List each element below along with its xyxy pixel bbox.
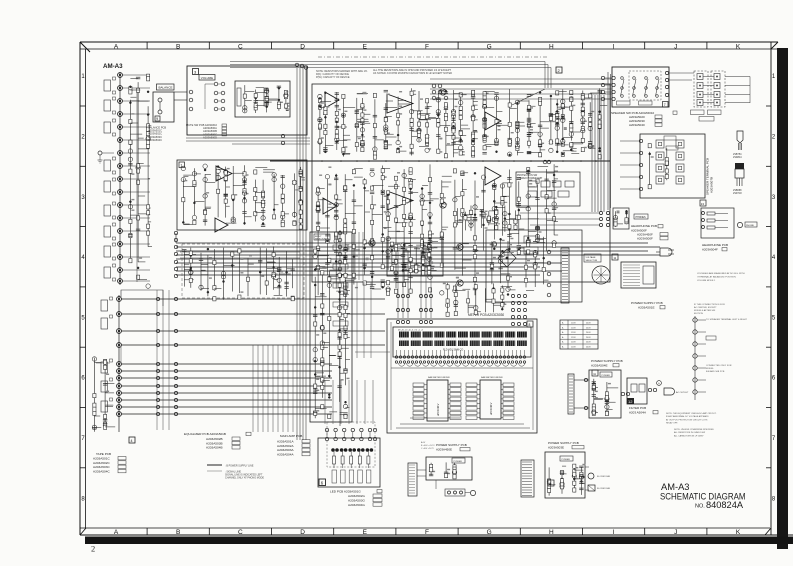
capacitor <box>552 180 556 182</box>
wire <box>322 266 333 268</box>
junction <box>472 140 474 142</box>
resistor <box>324 107 327 111</box>
value label <box>363 109 366 111</box>
wire <box>122 243 150 245</box>
pin box <box>466 397 477 401</box>
wire <box>340 304 347 306</box>
transistor <box>560 484 564 488</box>
wire <box>148 178 150 180</box>
capacitor <box>128 162 132 164</box>
wire <box>403 169 405 286</box>
junction <box>314 249 316 251</box>
value label <box>591 146 594 148</box>
value label <box>106 390 109 392</box>
wire <box>442 229 447 231</box>
bus wire <box>121 313 385 315</box>
resistor <box>605 411 608 415</box>
check box <box>373 494 382 497</box>
resistor <box>224 176 227 180</box>
resistor <box>453 469 456 473</box>
svg-text:7: 7 <box>664 103 666 107</box>
svg-text:PHONE: PHONE <box>746 225 754 227</box>
value label <box>462 151 465 153</box>
resistor <box>147 231 150 235</box>
wire <box>336 273 348 275</box>
svg-text:RELAY OFF.: RELAY OFF. <box>666 422 678 425</box>
wire <box>138 279 147 281</box>
balance pot <box>158 98 162 102</box>
wire <box>573 465 575 493</box>
value label <box>486 135 489 137</box>
grid tick right <box>766 286 771 288</box>
resistor <box>444 117 447 121</box>
value label <box>387 132 390 134</box>
wire <box>411 179 416 181</box>
resistor <box>104 365 107 369</box>
pad <box>110 378 113 381</box>
svg-text:D: D <box>300 529 305 536</box>
wire <box>485 146 492 148</box>
resistor <box>589 123 592 127</box>
wire <box>549 484 555 486</box>
pin box <box>450 402 461 406</box>
capacitor <box>527 94 531 96</box>
capacitor <box>428 256 432 258</box>
capacitor <box>440 237 444 239</box>
wire <box>130 214 136 216</box>
value label <box>431 247 434 249</box>
wire <box>388 230 398 232</box>
capacitor <box>335 104 339 106</box>
wire <box>600 93 606 95</box>
check box <box>302 444 310 447</box>
value label <box>131 173 134 175</box>
wire <box>473 119 478 121</box>
relay link wire <box>703 102 714 104</box>
capacitor <box>605 401 609 403</box>
resistor <box>426 140 429 144</box>
wire <box>590 147 595 149</box>
capacitor <box>549 141 553 143</box>
terminal square <box>656 164 664 172</box>
resistor <box>409 181 412 185</box>
wire <box>501 266 508 268</box>
terminal label <box>706 336 716 340</box>
resistor <box>129 234 132 238</box>
wire <box>422 185 428 187</box>
junction <box>147 91 149 93</box>
headphone pcb 2 outline <box>701 208 734 238</box>
svg-text:240V: 240V <box>586 323 591 325</box>
wire <box>593 379 595 411</box>
junction <box>278 99 280 101</box>
resistor <box>344 219 347 223</box>
wire <box>104 362 106 427</box>
junction <box>556 122 558 124</box>
value label <box>509 276 512 278</box>
wire <box>356 98 358 152</box>
resistor <box>352 273 355 277</box>
plug <box>470 490 475 495</box>
resistor <box>129 87 132 91</box>
value label <box>530 129 533 131</box>
wire <box>411 192 419 194</box>
power amp outline <box>312 84 610 282</box>
resistor <box>147 124 150 128</box>
wire <box>529 131 539 133</box>
svg-text:120V: 120V <box>571 327 576 329</box>
transistor <box>203 194 207 198</box>
resistor <box>361 141 364 145</box>
legend power supply line <box>207 464 222 466</box>
connector <box>338 231 342 235</box>
resistor <box>342 125 345 129</box>
svg-text:TAPE PCB: TAPE PCB <box>96 452 111 456</box>
wire <box>419 119 428 121</box>
wire <box>245 91 255 93</box>
capacitor <box>408 191 412 193</box>
resistor <box>592 404 595 408</box>
wire <box>426 100 428 145</box>
display segment group <box>505 332 515 338</box>
value label <box>341 379 344 381</box>
capacitor <box>436 112 440 114</box>
wire <box>245 216 252 218</box>
wire <box>442 203 447 205</box>
relay grid dashed column B <box>711 71 725 107</box>
grid tick bottom <box>208 528 210 535</box>
wire <box>615 211 617 227</box>
wire <box>233 172 244 174</box>
resistor <box>482 212 485 216</box>
value label <box>399 113 402 115</box>
transistor <box>316 191 320 195</box>
wire <box>571 143 582 145</box>
wire <box>353 190 355 285</box>
wire <box>94 361 101 363</box>
wire <box>407 250 409 318</box>
jack bus wire <box>118 295 120 432</box>
resistor <box>224 177 227 181</box>
wire <box>329 278 340 280</box>
resistor <box>508 183 511 187</box>
resistor <box>193 220 196 224</box>
wire <box>340 347 349 349</box>
resistor <box>625 220 628 224</box>
terminal connector <box>639 151 642 154</box>
pin box <box>450 397 461 401</box>
capacitor <box>92 426 96 428</box>
resistor R <box>367 450 369 456</box>
wire <box>508 289 516 291</box>
value label <box>234 194 237 196</box>
value label <box>399 105 402 107</box>
input label box <box>104 122 111 133</box>
wire <box>697 331 706 333</box>
wire <box>262 180 264 221</box>
transistor <box>128 157 132 161</box>
designator 7 <box>663 102 669 108</box>
relay module <box>541 181 550 187</box>
capacitor <box>343 285 347 287</box>
display segment group <box>434 332 444 338</box>
wire <box>396 282 402 284</box>
pad <box>113 178 116 181</box>
fuse F2 <box>588 485 595 491</box>
resistor <box>430 464 433 468</box>
power junction column <box>547 250 551 254</box>
legend signal line <box>207 470 222 472</box>
grid tick bottom <box>582 528 584 535</box>
wire <box>438 125 450 127</box>
transistor <box>552 241 556 245</box>
wire <box>454 180 456 270</box>
capacitor <box>409 151 413 153</box>
capacitor <box>490 242 494 244</box>
wire <box>474 181 476 296</box>
resistor <box>409 222 412 226</box>
wire <box>410 179 412 294</box>
svg-text:AC OUTLET: AC OUTLET <box>676 391 689 394</box>
capacitor <box>507 177 511 179</box>
transistor <box>482 134 486 138</box>
value label <box>476 272 479 274</box>
capacitor <box>261 203 265 205</box>
resistor <box>381 190 384 194</box>
resistor <box>147 140 150 144</box>
resistor <box>581 138 584 142</box>
resistor <box>440 199 443 203</box>
value label <box>455 98 458 100</box>
svg-text:STEREO POWER AMP: STEREO POWER AMP <box>517 177 543 180</box>
relay link wire <box>703 85 714 87</box>
wire <box>411 250 422 252</box>
svg-text:A203A504C: A203A504C <box>148 138 162 142</box>
junction <box>129 102 131 104</box>
terminal eyelet <box>693 342 697 346</box>
transistor <box>146 137 150 141</box>
connector <box>174 405 177 408</box>
junction <box>129 86 131 88</box>
capacitor <box>481 189 485 191</box>
resistor <box>553 243 556 247</box>
grid tick right <box>766 346 771 348</box>
connector <box>156 312 159 315</box>
resistor <box>299 201 302 205</box>
wire <box>345 280 347 385</box>
wire <box>286 91 288 93</box>
resistor <box>444 103 447 107</box>
svg-text:EQUALIZER PCB A203A501B: EQUALIZER PCB A203A501B <box>184 432 226 436</box>
capacitor <box>408 245 412 247</box>
junction <box>556 151 558 153</box>
capacitor <box>373 135 377 137</box>
svg-text:POWER: POWER <box>602 375 611 377</box>
phone jack symbol <box>737 222 742 227</box>
speaker wire horizontal <box>430 83 612 85</box>
capacitor <box>394 277 398 279</box>
wire <box>122 113 150 115</box>
capacitor <box>334 209 338 211</box>
resistor <box>318 125 321 129</box>
pin box <box>413 407 424 411</box>
terminal square <box>656 140 664 148</box>
resistor <box>570 143 573 147</box>
value label <box>447 143 450 145</box>
junction <box>255 97 257 99</box>
resistor <box>573 470 576 474</box>
resistor <box>483 96 486 100</box>
wire <box>429 164 431 268</box>
transistor <box>181 166 185 170</box>
value label <box>316 334 319 336</box>
value label <box>486 92 489 94</box>
wire <box>508 170 510 253</box>
wire <box>286 110 288 112</box>
value label <box>246 174 249 176</box>
svg-text:B: B <box>176 529 180 536</box>
connector <box>174 297 177 300</box>
junction <box>421 224 423 226</box>
resistor R <box>359 450 361 456</box>
resistor <box>417 122 420 126</box>
wire <box>336 255 347 257</box>
transformer hatch <box>408 463 417 496</box>
svg-text:B +40V +41.7V: B +40V +41.7V <box>421 445 435 447</box>
wire <box>547 197 557 199</box>
speaker wire horizontal <box>430 78 612 80</box>
transistor <box>242 191 246 195</box>
pad <box>113 237 116 240</box>
input jack J <box>118 203 123 208</box>
wire <box>562 89 564 141</box>
junction <box>364 247 366 249</box>
resistor <box>410 123 413 127</box>
resistor <box>262 193 265 197</box>
capacitor <box>527 151 531 153</box>
wire <box>485 144 495 146</box>
resistor <box>580 472 583 476</box>
grid tick left <box>80 346 86 348</box>
wire <box>462 259 471 261</box>
svg-text:E: E <box>363 529 368 536</box>
resistor <box>254 196 257 200</box>
capacitor <box>313 391 317 393</box>
designator 4 <box>129 437 135 443</box>
capacitor <box>533 252 537 254</box>
wire <box>218 100 221 102</box>
grid tick top <box>395 42 397 49</box>
capacitor <box>316 204 320 206</box>
svg-text:PHONES: PHONES <box>636 216 647 219</box>
wire <box>422 242 431 244</box>
wire <box>461 128 470 130</box>
transistor <box>231 219 235 223</box>
pin box <box>466 407 477 411</box>
value label <box>295 189 298 191</box>
pad <box>113 97 116 100</box>
value label <box>319 174 322 176</box>
resistor <box>129 119 132 123</box>
resistor <box>277 104 280 108</box>
wire <box>336 232 344 234</box>
resistor <box>570 143 573 147</box>
svg-text:MAIN AMP PCB: MAIN AMP PCB <box>280 434 302 438</box>
resistor <box>344 285 347 289</box>
resistor <box>104 359 107 363</box>
resistor <box>387 281 390 285</box>
capacitor <box>136 76 140 78</box>
border frame bottom band <box>80 527 770 529</box>
capacitor <box>325 214 329 216</box>
resistor <box>344 248 347 252</box>
function label vertical <box>237 88 241 106</box>
capacitor <box>535 226 539 228</box>
resistor <box>473 245 476 249</box>
svg-text:E: E <box>363 43 368 50</box>
wire <box>205 174 211 176</box>
input jack J <box>118 190 123 195</box>
wire <box>548 467 550 495</box>
wire <box>183 174 193 176</box>
svg-text:P(W): CAPACITY OF DEVICE: P(W): CAPACITY OF DEVICE <box>316 76 350 79</box>
junction <box>300 171 302 173</box>
wire <box>557 118 565 120</box>
value label <box>443 197 446 199</box>
pin box <box>450 411 461 415</box>
capacitor <box>436 97 440 99</box>
resistor <box>473 277 476 281</box>
capacitor <box>325 240 329 242</box>
capacitor <box>136 228 140 230</box>
wire <box>422 248 431 250</box>
resistor <box>483 103 486 107</box>
input jack J <box>118 86 123 91</box>
resistor <box>318 98 321 102</box>
wire <box>543 237 545 284</box>
capacitor <box>299 186 303 188</box>
resistor <box>409 168 412 172</box>
wire <box>605 77 612 79</box>
wire <box>336 92 338 150</box>
pin box <box>503 383 514 387</box>
resistor <box>665 161 668 165</box>
wire <box>362 91 366 93</box>
resistor <box>430 468 433 472</box>
wire <box>540 121 552 123</box>
capacitor <box>444 91 448 93</box>
resistor <box>472 90 475 94</box>
pin box <box>450 383 461 387</box>
wire <box>497 123 503 125</box>
resistor <box>560 470 563 474</box>
junction <box>432 96 436 100</box>
capacitor <box>318 119 322 121</box>
capacitor <box>203 219 207 221</box>
junction <box>649 153 651 155</box>
wire <box>346 336 350 338</box>
wire <box>445 104 447 157</box>
transistor <box>533 250 537 254</box>
transistor <box>560 482 564 486</box>
wire <box>360 432 362 438</box>
check box <box>118 465 126 468</box>
transistor <box>231 217 235 221</box>
value label <box>355 255 358 257</box>
resistor <box>147 74 150 78</box>
svg-text:: B POWER SUPPLY LINE: : B POWER SUPPLY LINE <box>225 465 254 468</box>
value label <box>328 183 331 185</box>
